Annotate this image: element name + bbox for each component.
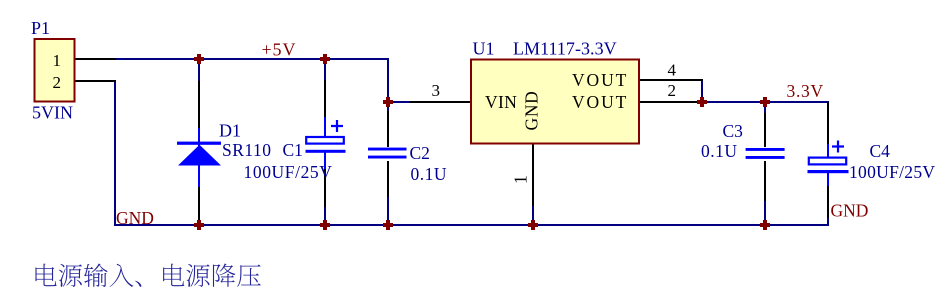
svg-text:5VIN: 5VIN [32, 102, 73, 122]
svg-text:0.1U: 0.1U [701, 141, 738, 161]
svg-text:100UF/25V: 100UF/25V [849, 162, 935, 182]
svg-text:GND: GND [522, 90, 542, 130]
svg-text:U1: U1 [473, 38, 495, 58]
svg-text:2: 2 [53, 73, 62, 92]
svg-text:C1: C1 [283, 140, 303, 160]
svg-text:4: 4 [668, 61, 677, 80]
svg-text:VOUT: VOUT [572, 70, 628, 90]
svg-text:+5V: +5V [262, 40, 297, 60]
svg-text:VIN: VIN [485, 92, 517, 112]
svg-text:SR110: SR110 [222, 140, 272, 160]
svg-text:LM1117-3.3V: LM1117-3.3V [513, 38, 617, 58]
svg-text:C2: C2 [410, 143, 430, 163]
svg-text:2: 2 [668, 81, 677, 100]
svg-text:D1: D1 [219, 120, 241, 140]
svg-text:100UF/25V: 100UF/25V [244, 162, 333, 182]
svg-text:GND: GND [116, 208, 154, 228]
svg-text:3: 3 [432, 81, 441, 100]
svg-text:C4: C4 [870, 141, 891, 161]
svg-text:1: 1 [511, 175, 531, 184]
svg-text:3.3V: 3.3V [787, 81, 824, 101]
svg-text:C3: C3 [723, 121, 744, 141]
svg-text:1: 1 [53, 51, 62, 70]
svg-text:GND: GND [831, 201, 869, 221]
svg-text:P1: P1 [31, 18, 50, 38]
svg-text:VOUT: VOUT [572, 92, 628, 112]
svg-text:0.1U: 0.1U [411, 164, 448, 184]
